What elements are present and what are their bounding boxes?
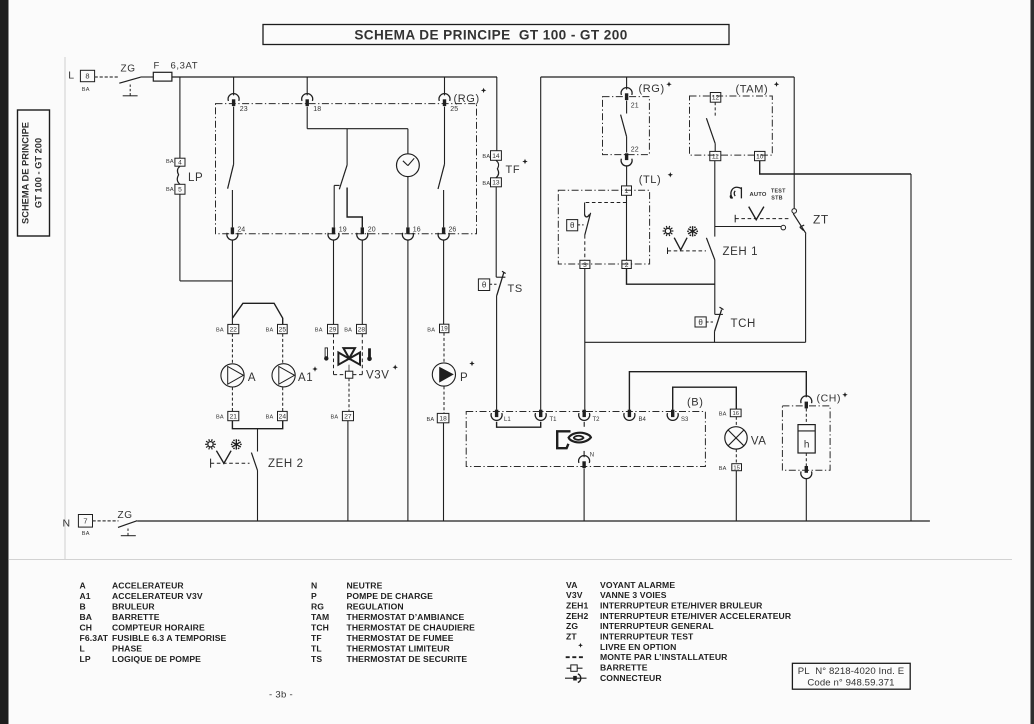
svg-text:θ: θ	[482, 281, 487, 290]
svg-text:TEST: TEST	[771, 189, 786, 195]
wire to clock	[407, 129, 409, 154]
svg-text:ZEH 1: ZEH 1	[723, 246, 759, 258]
svg-text:24: 24	[279, 413, 287, 420]
wire ZT down	[805, 234, 807, 343]
TL blade	[585, 213, 591, 235]
connector 20	[361, 227, 364, 234]
svg-text:TF: TF	[506, 164, 521, 176]
switch RG21 blade	[621, 115, 627, 137]
ZT blade arrow	[800, 225, 804, 227]
svg-text:N: N	[590, 453, 594, 459]
fuse F6.3AT body	[153, 72, 172, 81]
V3V dashed left	[333, 334, 335, 375]
svg-text:4: 4	[178, 160, 182, 167]
T2 internal stub	[583, 422, 585, 427]
barrette box 25	[278, 324, 288, 333]
PL code box	[792, 663, 910, 689]
wire 20 down	[361, 239, 363, 324]
svg-text:NEUTRE: NEUTRE	[347, 581, 383, 591]
bottom ZG dashes	[127, 529, 129, 534]
connector 24	[231, 227, 234, 234]
terminal box 10	[755, 151, 766, 160]
wire 16 to bottom bus	[407, 239, 409, 521]
wire ZG to fuse	[141, 76, 154, 78]
svg-text:STB: STB	[771, 196, 782, 202]
burner flame logo	[557, 431, 570, 448]
svg-text:MONTE PAR L’INSTALLATEUR: MONTE PAR L’INSTALLATEUR	[600, 652, 728, 662]
limit thermostat box (TL)	[558, 190, 649, 264]
top bus segment 1	[172, 76, 497, 78]
connector N	[579, 456, 590, 463]
svg-text:15: 15	[733, 465, 739, 471]
wire 23 to switch	[233, 107, 235, 165]
TL theta box	[567, 220, 578, 231]
svg-text:BA: BA	[82, 531, 90, 537]
valve actuator square	[345, 371, 352, 378]
wire 3 to T2	[584, 269, 586, 410]
connector 18	[302, 94, 313, 101]
svg-text:INTERRUPTEUR ETE/HIVER ACCELER: INTERRUPTEUR ETE/HIVER ACCELERATEUR	[600, 611, 792, 621]
wire 19 down	[333, 239, 335, 324]
svg-text:L: L	[80, 643, 85, 653]
barrette box 15	[732, 464, 742, 471]
svg-text:ZT: ZT	[566, 632, 577, 642]
svg-text:ZG: ZG	[121, 64, 136, 75]
TL theta link	[578, 224, 584, 226]
svg-text:14: 14	[492, 153, 500, 160]
svg-text:23: 23	[240, 106, 248, 113]
V3V dashed right	[361, 334, 363, 375]
legend barrette symbol	[567, 667, 571, 669]
svg-text:TF: TF	[311, 633, 322, 643]
connector 16	[406, 227, 409, 234]
VA dashed upper	[735, 417, 737, 427]
changeover seat 19	[334, 184, 339, 186]
V3V left thermometer	[325, 348, 327, 357]
wire TAM blade to 11	[714, 144, 716, 152]
svg-text:T1: T1	[550, 417, 558, 423]
wire blade to 22	[626, 137, 628, 153]
terminal box 1	[622, 186, 632, 195]
clock hands	[408, 158, 414, 165]
svg-text:16: 16	[732, 411, 738, 417]
svg-text:TAM: TAM	[311, 612, 329, 622]
wire 1 to 2	[626, 195, 628, 260]
ZEH1 blade	[706, 238, 714, 260]
terminal box 11	[710, 151, 721, 160]
barrette box 24	[278, 411, 288, 420]
terminal N box 7	[78, 515, 92, 528]
svg-text:(RG): (RG)	[454, 93, 480, 105]
pump A1 dashed lower	[282, 387, 284, 411]
svg-text:TS: TS	[508, 283, 523, 295]
wire switch to 26	[443, 190, 445, 227]
svg-text:POMPE DE CHARGE: POMPE DE CHARGE	[347, 591, 434, 601]
connector S3	[671, 410, 674, 417]
svg-text:3: 3	[583, 262, 587, 269]
wire LP down	[179, 194, 181, 281]
CH dashed lower	[805, 453, 807, 466]
valve V3V	[338, 353, 349, 365]
thermostat TS tick	[496, 276, 505, 278]
svg-text:INTERRUPTEUR GENERAL: INTERRUPTEUR GENERAL	[600, 621, 714, 631]
svg-text:P: P	[311, 591, 317, 601]
faint page fold vertical	[64, 57, 66, 559]
svg-text:28: 28	[358, 326, 366, 333]
connector CH bottom	[805, 466, 808, 473]
barrette box 29	[328, 324, 338, 333]
faint page rule horizontal	[9, 559, 1012, 561]
wire bus to connector 18	[306, 77, 308, 95]
svg-text:BA: BA	[216, 415, 224, 421]
svg-text:INTERRUPTEUR ETE/HIVER BRULEUR: INTERRUPTEUR ETE/HIVER BRULEUR	[600, 601, 763, 611]
VA dashed lower	[735, 449, 737, 464]
wire bus to connector 25	[444, 77, 446, 95]
svg-text:N: N	[311, 581, 317, 591]
pump A1	[272, 364, 295, 387]
CH dashed upper	[805, 409, 807, 425]
pump P	[432, 363, 455, 386]
svg-text:VA: VA	[751, 436, 767, 448]
(TAM) option star	[774, 82, 779, 87]
pump P option star	[469, 361, 474, 366]
wire 22 to TL	[626, 165, 628, 186]
ZT actuator tick	[734, 215, 736, 223]
svg-text:PHASE: PHASE	[112, 643, 142, 653]
svg-text:25: 25	[279, 326, 287, 333]
wire B4 to CH	[629, 372, 806, 410]
TL dashed wire to 3	[584, 235, 586, 260]
wire TS to L1	[496, 295, 498, 410]
TCH theta link	[706, 321, 713, 323]
terminal box 2	[622, 260, 631, 268]
TS theta box	[478, 279, 489, 291]
svg-text:BA: BA	[331, 415, 339, 421]
ZT actuator dashes	[735, 218, 790, 220]
svg-text:LOGIQUE DE POMPE: LOGIQUE DE POMPE	[112, 654, 201, 664]
svg-text:(RG): (RG)	[639, 83, 665, 95]
TCH tick	[715, 313, 723, 315]
TF bracket	[496, 160, 499, 178]
svg-text:16: 16	[413, 227, 421, 234]
svg-text:VOYANT ALARME: VOYANT ALARME	[600, 580, 675, 590]
svg-text:ACCELERATEUR: ACCELERATEUR	[112, 581, 184, 591]
ZT top contact	[792, 209, 797, 214]
pump A1 option star	[312, 366, 317, 371]
svg-text:BA: BA	[719, 466, 727, 472]
svg-text:LP: LP	[188, 172, 203, 184]
svg-text:F: F	[154, 61, 160, 72]
legend option star symbol	[578, 643, 583, 648]
connector 21	[621, 88, 632, 95]
svg-text:F6.3AT: F6.3AT	[80, 633, 109, 643]
svg-text:2: 2	[625, 262, 629, 269]
terminal box 3	[580, 260, 590, 268]
svg-text:B: B	[80, 602, 86, 612]
svg-text:26: 26	[449, 227, 457, 234]
bottom ZG tee	[127, 534, 129, 536]
svg-text:(CH): (CH)	[817, 393, 842, 405]
svg-text:THERMOSTAT DE CHAUDIERE: THERMOSTAT DE CHAUDIERE	[347, 622, 476, 632]
connector B4	[628, 410, 631, 417]
TF option star	[522, 159, 527, 164]
connector 22	[625, 153, 628, 160]
valve stem	[348, 365, 350, 372]
connector 25	[439, 94, 450, 101]
ZT hand symbol	[730, 187, 741, 198]
svg-text:A1: A1	[80, 591, 91, 601]
wire bus to connector 23	[233, 77, 235, 95]
hour counter h	[798, 425, 815, 453]
connector T1	[539, 410, 542, 417]
barrette box 4	[175, 158, 185, 166]
ZEH2 selector V	[216, 451, 231, 464]
svg-text:ZEH2: ZEH2	[566, 611, 588, 621]
svg-text:22: 22	[230, 326, 238, 333]
scan right dark edge	[1031, 0, 1034, 724]
TL seat hook	[585, 214, 590, 216]
barrette box 19	[440, 324, 449, 333]
wire 18 to bus	[443, 423, 445, 521]
terminal L box 8	[80, 70, 94, 81]
barrette box 21	[228, 411, 239, 420]
svg-text:ACCELERATEUR V3V: ACCELERATEUR V3V	[112, 591, 203, 601]
svg-text:V3V: V3V	[366, 370, 390, 382]
svg-text:AUTO: AUTO	[750, 192, 767, 198]
wire to changeover	[346, 129, 348, 165]
wire 18 down	[306, 107, 308, 129]
wire 18 horizontal	[307, 128, 408, 130]
wire VA to bus	[735, 471, 737, 521]
thermostat TS blade	[497, 273, 504, 296]
wire LP to pump column	[180, 280, 233, 282]
wire pumps join	[232, 421, 282, 429]
svg-text:8: 8	[85, 72, 89, 81]
svg-text:BA: BA	[427, 417, 435, 423]
pump A	[221, 364, 244, 387]
svg-text:BA: BA	[427, 328, 435, 334]
svg-text:L: L	[68, 70, 74, 82]
wire changeover to 20	[347, 188, 362, 228]
connector T2	[583, 410, 586, 417]
svg-text:SCHEMA DE PRINCIPE GT 100 - G: SCHEMA DE PRINCIPE GT 100 - GT 200	[354, 28, 627, 43]
svg-text:(B): (B)	[687, 397, 703, 409]
hour counter box (CH)	[782, 406, 830, 470]
svg-text:THERMOSTAT DE SECURITE: THERMOSTAT DE SECURITE	[347, 654, 468, 664]
TL seat lead	[584, 203, 586, 215]
svg-text:ZG: ZG	[566, 621, 578, 631]
svg-text:BA: BA	[266, 328, 274, 334]
svg-text:7: 7	[83, 517, 87, 526]
svg-text:A: A	[248, 372, 256, 384]
wire ZEH1 to TCH	[714, 260, 716, 315]
svg-text:19: 19	[441, 326, 448, 333]
svg-text:27: 27	[344, 413, 352, 420]
scan left black edge	[0, 0, 9, 724]
svg-text:INTERRUPTEUR TEST: INTERRUPTEUR TEST	[600, 632, 694, 642]
valve dashes right	[353, 374, 363, 376]
svg-text:S3: S3	[681, 417, 689, 423]
room thermostat box (TAM)	[690, 96, 773, 155]
ZEH1 sun symbol	[665, 228, 670, 233]
svg-text:BA: BA	[344, 328, 352, 334]
svg-text:V3V: V3V	[566, 590, 583, 600]
TL linkage dashes	[585, 202, 627, 204]
barrette box 5	[175, 184, 185, 194]
svg-text:N: N	[63, 518, 71, 530]
svg-text:P: P	[460, 372, 468, 384]
right riser wire	[910, 174, 912, 521]
connector CH top	[801, 396, 812, 403]
wire switch to 24	[231, 190, 233, 227]
switch ZG blade	[119, 77, 140, 83]
ZEH2 selector dashes	[211, 462, 250, 464]
wire 21 to blade	[626, 101, 628, 114]
valve dashes left	[334, 374, 346, 376]
wire 13 to TS	[495, 187, 497, 277]
svg-text:BA: BA	[482, 181, 490, 187]
svg-text:18: 18	[439, 415, 447, 422]
svg-text:COMPTEUR HORAIRE: COMPTEUR HORAIRE	[112, 622, 205, 632]
wire bus to ZT	[793, 77, 795, 208]
svg-text:BA: BA	[266, 415, 274, 421]
svg-text:18: 18	[313, 106, 321, 113]
wire ZEH2 to bus	[257, 470, 259, 521]
svg-text:B4: B4	[639, 417, 647, 423]
svg-text:VA: VA	[566, 580, 578, 590]
svg-text:(TL): (TL)	[639, 174, 662, 186]
sidebar box	[18, 110, 50, 236]
switch RG blade	[438, 164, 445, 189]
wire 24 down	[231, 239, 233, 324]
connector 23	[228, 94, 239, 101]
svg-text:LP: LP	[80, 654, 91, 664]
svg-text:ZT: ZT	[813, 213, 829, 227]
pump A1 dashed upper	[282, 334, 284, 364]
ZT blade	[793, 214, 806, 234]
TS theta link	[490, 283, 499, 285]
svg-text:22: 22	[631, 147, 639, 154]
svg-text:SCHEMA DE PRINCIPE: SCHEMA DE PRINCIPE	[21, 122, 31, 224]
pump A dashed lower	[231, 387, 233, 411]
svg-text:5: 5	[178, 187, 182, 194]
svg-text:29: 29	[329, 326, 337, 333]
svg-text:VANNE 3 VOIES: VANNE 3 VOIES	[600, 590, 667, 600]
V3V dashed to 27	[348, 378, 350, 411]
wire 2 to ZEH1	[627, 269, 715, 285]
svg-text:CH: CH	[80, 622, 93, 632]
svg-text:THERMOSTAT LIMITEUR: THERMOSTAT LIMITEUR	[347, 643, 451, 653]
svg-text:BA: BA	[719, 412, 727, 418]
top bus segment 2	[541, 76, 795, 78]
ZEH1 selector dashes	[668, 250, 707, 252]
svg-text:θ: θ	[570, 221, 575, 230]
(TL) option star	[668, 172, 673, 177]
svg-text:ZEH 2: ZEH 2	[268, 458, 304, 470]
barrette box 18	[437, 413, 449, 422]
wire bus to connector 21	[626, 77, 628, 90]
svg-text:24: 24	[237, 227, 245, 234]
alarm lamp VA	[725, 427, 747, 449]
jumper L1-T1	[497, 422, 541, 427]
svg-text:GT 100 - GT 200: GT 100 - GT 200	[34, 138, 44, 208]
ZG actuator dashes	[129, 85, 131, 94]
title box	[263, 25, 729, 45]
svg-text:1: 1	[625, 188, 629, 195]
ZEH2 snow symbol	[235, 439, 237, 449]
wire N to ZG	[93, 520, 119, 522]
barrette box 13	[491, 178, 502, 187]
svg-text:TL: TL	[311, 643, 322, 653]
P dashed lower	[443, 386, 445, 413]
svg-text:12: 12	[712, 95, 720, 102]
TAM dashed lead	[714, 102, 716, 117]
regulation box (RG)	[216, 104, 477, 234]
ZG actuator tee	[129, 93, 131, 96]
pump A dashed upper	[231, 334, 233, 364]
barrette box 16	[730, 409, 741, 417]
ZEH2 sun symbol	[208, 442, 213, 447]
svg-text:10: 10	[756, 153, 764, 160]
svg-text:BA: BA	[166, 187, 174, 193]
svg-text:11: 11	[712, 153, 719, 160]
N internal stub	[583, 451, 585, 457]
svg-text:21: 21	[631, 103, 639, 110]
(RG) option star	[481, 88, 486, 93]
wire L to ZG	[95, 76, 119, 78]
legend connector symbol	[565, 677, 587, 679]
svg-text:13: 13	[492, 180, 500, 187]
terminal box 12	[710, 93, 721, 103]
svg-text:RG: RG	[311, 602, 324, 612]
bottom bus	[137, 520, 930, 522]
regulation contact box (RG)	[603, 97, 650, 155]
legend installer dashes symbol	[566, 656, 583, 658]
wire bus corner to TF	[496, 77, 498, 151]
wire T1 riser	[540, 77, 542, 410]
wire N to bus	[583, 468, 585, 521]
connector 26	[442, 227, 445, 234]
wire clock to 16	[407, 177, 409, 228]
svg-text:6,3AT: 6,3AT	[171, 61, 199, 72]
wire 26 down	[443, 239, 445, 324]
switch LP contact blade	[228, 164, 234, 189]
svg-text:ZG: ZG	[118, 510, 133, 521]
wire seat to 19	[333, 185, 335, 227]
burner box (B)	[466, 412, 705, 467]
svg-text:TCH: TCH	[311, 622, 329, 632]
svg-text:L1: L1	[504, 417, 511, 423]
wire 27 to bus	[347, 421, 349, 521]
svg-text:BARRETTE: BARRETTE	[600, 663, 648, 673]
wire join to ZEH2	[257, 429, 259, 452]
svg-text:THERMOSTAT DE FUMEE: THERMOSTAT DE FUMEE	[347, 633, 454, 643]
wire 10 to right riser	[760, 161, 911, 174]
wire bus to LP	[179, 77, 181, 158]
connector 19	[332, 227, 335, 234]
ZEH1 selector tick	[667, 248, 669, 255]
wire 11 down	[714, 161, 716, 237]
changeover blade	[339, 165, 347, 189]
svg-text:BA: BA	[216, 328, 224, 334]
svg-text:21: 21	[230, 413, 238, 420]
svg-text:BARRETTE: BARRETTE	[112, 612, 160, 622]
TCH theta box	[695, 317, 706, 327]
ZEH1 snow symbol	[692, 226, 694, 236]
svg-text:LIVRE EN OPTION: LIVRE EN OPTION	[600, 642, 676, 652]
svg-text:TCH: TCH	[731, 318, 756, 330]
ZEH2 selector tick	[210, 459, 212, 468]
